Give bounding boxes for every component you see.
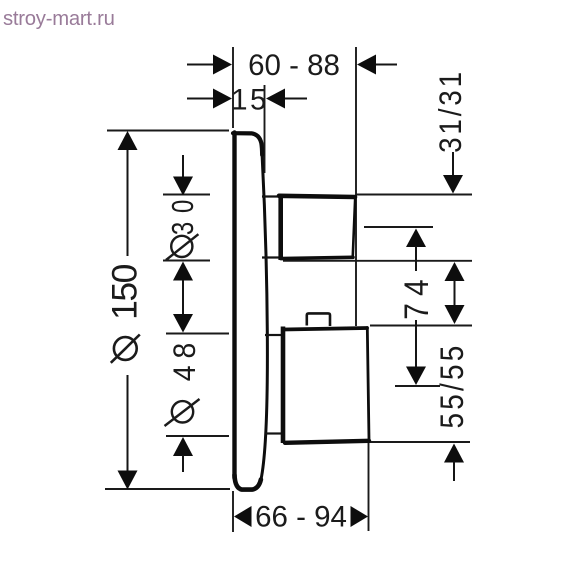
svg-text:31/31: 31/31 — [433, 69, 468, 153]
dimension 15 — [187, 89, 307, 109]
extension line wall plane top — [232, 47, 234, 128]
plate top edge — [233, 133, 262, 155]
svg-text:150: 150 — [104, 264, 144, 319]
extension line knob2 top right — [370, 325, 472, 327]
extension line knob2 axis — [395, 385, 440, 387]
svg-text:stroy-mart.ru: stroy-mart.ru — [3, 8, 115, 30]
upper handle body — [279, 196, 355, 259]
dimension D48 label — [165, 336, 203, 426]
extension tick knob1 top — [163, 194, 210, 196]
extension tick knob2 bottom — [166, 435, 229, 437]
svg-text:60 - 88: 60 - 88 — [248, 49, 340, 82]
extension line plate top — [107, 130, 229, 132]
svg-text:74: 74 — [397, 272, 436, 320]
dimension gap double arrow — [445, 262, 465, 324]
lower handle back edge — [281, 327, 286, 444]
escutcheon plate — [233, 133, 267, 490]
extension line handle front — [355, 47, 357, 326]
extension tick knob1 bottom — [163, 260, 210, 262]
extension line knob2 bottom right — [368, 441, 470, 443]
extension tick knob2 top — [166, 333, 229, 335]
upper handle stem — [262, 197, 280, 258]
dimension D150 — [118, 131, 138, 490]
lower handle stem — [265, 335, 281, 434]
svg-text:48: 48 — [168, 336, 203, 381]
svg-text:55/55: 55/55 — [435, 342, 470, 428]
lower handle body — [284, 328, 370, 443]
svg-text:66 - 94: 66 - 94 — [255, 501, 347, 534]
svg-text:15: 15 — [231, 84, 269, 117]
upper handle back edge — [278, 194, 283, 260]
plate bottom edge — [235, 475, 261, 490]
extension line lower handle front bottom — [368, 443, 370, 531]
dimension D30 chain — [173, 155, 193, 472]
plate front face — [232, 133, 236, 479]
extension line knob1 axis — [364, 226, 433, 228]
extension line wall plane bottom — [232, 491, 234, 532]
dimension 74 — [406, 229, 426, 386]
lower handle tab — [307, 313, 330, 326]
svg-text:30: 30 — [165, 191, 200, 235]
extension line knob1 top right — [356, 194, 472, 196]
extension line plate bottom — [105, 488, 230, 490]
dimension 60-88 — [187, 55, 397, 75]
plate back edge — [261, 155, 267, 480]
dimension 66-94 — [234, 506, 368, 527]
extension line plate back top — [264, 85, 266, 173]
extension line knob1 bottom long — [283, 260, 472, 262]
